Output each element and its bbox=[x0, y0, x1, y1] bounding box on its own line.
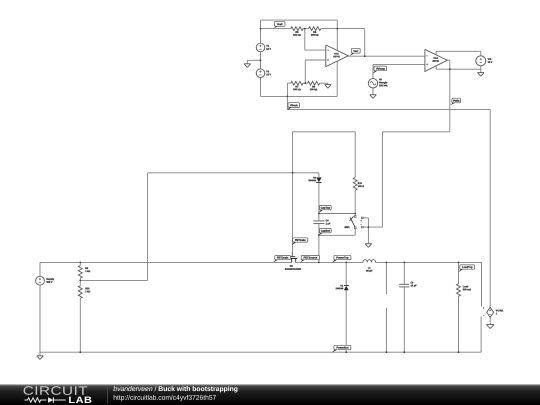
wire V3 to OA2 plus input bbox=[373, 64, 425, 78]
node flag PWM bbox=[450, 98, 461, 105]
wire Vbuck line bbox=[287, 108, 490, 110]
wire VCVS control minus bbox=[480, 316, 482, 352]
svg-text:Vrail: Vrail bbox=[277, 23, 283, 26]
svg-text:Load: Load bbox=[463, 285, 469, 288]
wire Verr output line OA1 to OA2 bbox=[348, 55, 425, 57]
wire PWM segment A to R11 bbox=[293, 132, 356, 178]
op-amp OA2 bbox=[425, 49, 447, 71]
resistor R7 bbox=[291, 81, 303, 91]
wire top power rail bbox=[40, 261, 482, 263]
VCVS1 dependent source bbox=[483, 307, 504, 318]
svg-text:100 kΩ: 100 kΩ bbox=[293, 88, 301, 91]
node flag Vtriang bbox=[373, 66, 387, 74]
svg-text:PowerTop: PowerTop bbox=[336, 256, 349, 259]
svg-text:LAB: LAB bbox=[68, 395, 92, 405]
svg-text:12 V: 12 V bbox=[266, 73, 271, 76]
wire OA2 output down (PWM) bbox=[447, 60, 450, 132]
ground below V3 bbox=[370, 95, 377, 99]
svg-text:Vtriang: Vtriang bbox=[376, 67, 385, 70]
capacitor C3 bbox=[399, 281, 417, 287]
svg-text:R11: R11 bbox=[358, 182, 363, 185]
wire R9-R10 divider branch bbox=[79, 262, 81, 352]
ground at SW1 control bbox=[365, 244, 372, 248]
wire Vrail top rail from V1+ corner to OA1 V+ drop bbox=[261, 19, 338, 21]
svg-text:100 kΩ: 100 kΩ bbox=[310, 88, 318, 91]
svg-text:R10: R10 bbox=[85, 287, 90, 290]
svg-text:100 kΩ: 100 kΩ bbox=[293, 34, 301, 37]
switch SW1 bbox=[345, 216, 364, 229]
svg-text:1 kΩ: 1 kΩ bbox=[85, 290, 90, 293]
wire R8 right ground stub bbox=[327, 83, 329, 84]
svg-text:triangle: triangle bbox=[379, 81, 388, 84]
svg-text:100 kΩ: 100 kΩ bbox=[311, 34, 319, 37]
svg-text:LoadTop: LoadTop bbox=[462, 266, 473, 269]
MOSFET M1 bbox=[285, 252, 302, 271]
svg-text:PWM: PWM bbox=[453, 100, 459, 103]
wire VCVS output bottom to ground bbox=[489, 317, 491, 324]
wire supply to rails bbox=[39, 262, 41, 352]
svg-text:bvanderveen / Buck with bootst: bvanderveen / Buck with bootstrapping bbox=[113, 386, 238, 393]
svg-text:1N4148: 1N4148 bbox=[308, 179, 316, 182]
svg-text:12 V: 12 V bbox=[266, 48, 271, 51]
svg-text:1 kΩ: 1 kΩ bbox=[85, 270, 90, 273]
ground between V1 V2 bbox=[244, 64, 251, 68]
svg-text:PowerBot: PowerBot bbox=[336, 346, 348, 349]
wire VCVS control plus bbox=[481, 262, 483, 306]
ground below VCVS1 bbox=[486, 325, 494, 329]
resistor R10 bbox=[78, 286, 90, 299]
node flag CapTop bbox=[318, 205, 331, 213]
wire R7/R8 line bbox=[287, 82, 328, 84]
wire PWM segment B bbox=[382, 132, 449, 227]
wire mid supply to ground bbox=[247, 60, 260, 64]
function generator V3 bbox=[368, 78, 388, 88]
svg-text:1N4148: 1N4148 bbox=[336, 287, 344, 290]
svg-text:300 V: 300 V bbox=[46, 281, 52, 284]
wire feedback drop to OA1 output bbox=[364, 29, 366, 57]
wire CapTop to SW1 bbox=[319, 213, 355, 215]
wire V3 bottom to ground bbox=[372, 88, 374, 95]
svg-text:12 V: 12 V bbox=[488, 61, 493, 64]
wire supply ground stub bbox=[39, 352, 41, 356]
node flag LoadTop bbox=[458, 265, 474, 272]
inductor L1 bbox=[363, 260, 376, 273]
wire C2 branch bottom bbox=[385, 308, 387, 352]
svg-text:68 μH: 68 μH bbox=[366, 269, 373, 272]
node flag Vrail bbox=[274, 21, 285, 28]
wire D2 branch bbox=[318, 173, 320, 220]
voltage source Supply bbox=[36, 276, 55, 285]
svg-text:FETSource: FETSource bbox=[304, 256, 318, 259]
wire CapBot to SW1 throw bbox=[319, 229, 355, 236]
node flag PowerTop bbox=[332, 255, 351, 263]
wire OA2 V- rail to V11/ground bbox=[436, 66, 481, 73]
op-amp OA1 bbox=[326, 45, 349, 67]
svg-text:500 mΩ: 500 mΩ bbox=[463, 288, 472, 291]
wire SW1 control leads bbox=[363, 218, 383, 244]
svg-text:Verr: Verr bbox=[353, 50, 358, 53]
wire OA1 inverting input bbox=[305, 29, 326, 50]
wire divider-tap link bbox=[80, 173, 319, 281]
node flag PowerBot bbox=[332, 345, 351, 352]
svg-text:SW1: SW1 bbox=[345, 226, 351, 229]
svg-text:FETDrain: FETDrain bbox=[277, 256, 289, 259]
wire D1 branch bbox=[345, 262, 347, 352]
wire OA1 V+ supply pin vertical bbox=[336, 20, 338, 50]
node flag FETDrain bbox=[273, 256, 291, 263]
voltage source V11 bbox=[476, 56, 493, 66]
wire V2- to OA1 V- pin bbox=[261, 61, 338, 96]
voltage source V1 bbox=[256, 43, 271, 52]
svg-text:OA1: OA1 bbox=[334, 52, 339, 55]
svg-text:CapBot: CapBot bbox=[321, 230, 330, 233]
node flag Verr bbox=[349, 48, 360, 56]
svg-text:100 Ω: 100 Ω bbox=[358, 185, 364, 188]
resistor R8 bbox=[308, 81, 320, 91]
footer bar with CircuitLab logo and title bbox=[0, 384, 540, 405]
diode D1 bbox=[336, 284, 349, 290]
resistor Load bbox=[457, 284, 472, 297]
node flag FETGate bbox=[292, 238, 308, 245]
wire R5/R6 line (Vrail to feedback) bbox=[261, 28, 365, 30]
svg-text:http://circuitlab.com/c4yvf372: http://circuitlab.com/c4yvf3726th57 bbox=[113, 395, 216, 402]
wire C3 branch bbox=[403, 262, 405, 352]
ground at R8 bbox=[325, 85, 332, 89]
resistor R11 bbox=[353, 177, 364, 190]
wire V1-V2 stack bbox=[260, 20, 262, 96]
wire Vbuck down to VCVS bbox=[489, 109, 491, 307]
wire bottom rail bbox=[40, 351, 481, 353]
wire Load branch bbox=[458, 262, 460, 352]
svg-text:10 μF: 10 μF bbox=[410, 284, 417, 287]
wire C4 bottom to rail bbox=[318, 224, 320, 262]
svg-text:CapTop: CapTop bbox=[321, 207, 331, 210]
ground below V11 bbox=[478, 73, 485, 77]
resistor R6 bbox=[309, 27, 321, 37]
svg-text:FETGate: FETGate bbox=[295, 239, 306, 242]
wire R7 left to Vbuck corner bbox=[286, 83, 288, 109]
ground below Supply bbox=[37, 356, 44, 360]
node flag CapBot bbox=[318, 228, 331, 235]
wire R11 bottom to SW1 common bbox=[354, 190, 356, 215]
node flag FETSource bbox=[300, 256, 319, 263]
node flag Vbuck bbox=[287, 103, 300, 111]
svg-text:Vbuck: Vbuck bbox=[290, 104, 298, 107]
resistor R9 bbox=[78, 265, 90, 278]
wire OA2 V+ rail to V11 bbox=[436, 51, 481, 56]
svg-text:OA2: OA2 bbox=[433, 57, 438, 60]
voltage source V2 bbox=[256, 69, 271, 78]
wire OA1 non-inverting input bbox=[305, 60, 326, 83]
wire gate drop bbox=[292, 132, 294, 256]
capacitor C4 bbox=[313, 219, 331, 225]
svg-text:AD741: AD741 bbox=[432, 60, 440, 63]
svg-text:100 kHz: 100 kHz bbox=[379, 84, 388, 87]
svg-text:VCVS1: VCVS1 bbox=[496, 309, 504, 312]
svg-text:BSC26DN10NS3: BSC26DN10NS3 bbox=[285, 268, 302, 271]
svg-text:Supply: Supply bbox=[46, 278, 54, 281]
diode D2 bbox=[308, 176, 321, 182]
resistor R5 bbox=[291, 27, 303, 37]
svg-text:1 μF: 1 μF bbox=[326, 222, 331, 225]
wire C2 branch top bbox=[385, 262, 387, 294]
svg-text:AD741: AD741 bbox=[333, 55, 341, 58]
